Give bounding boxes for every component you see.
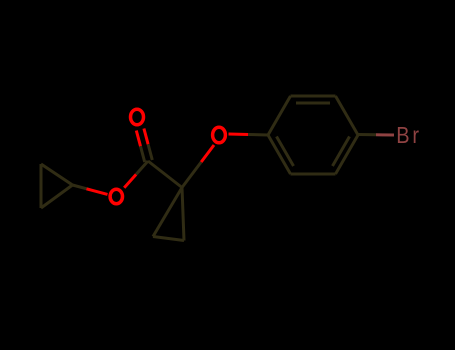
benzene ring edge TR-R [336, 96, 359, 135]
benzene inner double line lower-right (R-BR) [333, 137, 350, 167]
bond C(aryl)-Br carbon half [358, 133, 376, 136]
atom Br bromine label [396, 121, 422, 148]
benzene ring edge TL-TR [291, 95, 336, 98]
atom O1 ester oxygen letter [110, 189, 122, 204]
benzene inner double line top (TL-TR) [296, 102, 330, 105]
wire: cyclopropyl ring (left) edge CH2-CH2 vertical [40, 164, 43, 208]
bond C(aryl)-Br bromine half [376, 133, 394, 136]
bond C=O double line B carbon half [141, 146, 145, 162]
benzene ring edge BL-L [268, 135, 291, 174]
bond C=O double line A oxygen half [144, 129, 148, 145]
wire: cyclopropane ring (bottom) right edge [182, 188, 184, 241]
wire: cyclopropane ring (bottom) base edge [153, 237, 184, 241]
bond C=O double line A carbon half [148, 144, 152, 160]
svg-text:Br: Br [396, 121, 422, 148]
bond C(quaternary)-O(ether) oxygen half [201, 145, 214, 162]
bond C(quaternary)-O(ether) carbon half [182, 162, 201, 188]
wire: cyclopropane ring (bottom) left edge [153, 188, 182, 237]
atom O2 carbonyl oxygen letter [131, 109, 144, 124]
wire: cyclopropyl ring (left) edge CH-CH2 bottom [41, 185, 73, 208]
benzene inner double line lower-left (BL-L) [277, 137, 294, 167]
benzene ring edge L-TL [268, 96, 291, 135]
benzene ring edge R-BR [336, 135, 359, 174]
bond CH-O(ester) oxygen half [87, 189, 108, 195]
bond O(ester)-C(carbonyl) oxygen half [124, 174, 136, 187]
bond O(ether)-C(aryl) oxygen half [229, 133, 249, 137]
bond C(carbonyl)-C(quaternary) [148, 161, 182, 188]
wire: cyclopropyl ring (left) edge CH-CH2 top [41, 164, 73, 185]
bond CH-O(ester) carbon half [73, 185, 91, 190]
atom O3 ether oxygen letter [213, 127, 226, 143]
bond C=O double line B oxygen half [136, 131, 140, 147]
bond O(ester)-C(carbonyl) carbon half [136, 161, 148, 174]
bond O(ether)-C(aryl) carbon half [248, 133, 268, 137]
benzene ring edge BR-BL [291, 173, 336, 176]
